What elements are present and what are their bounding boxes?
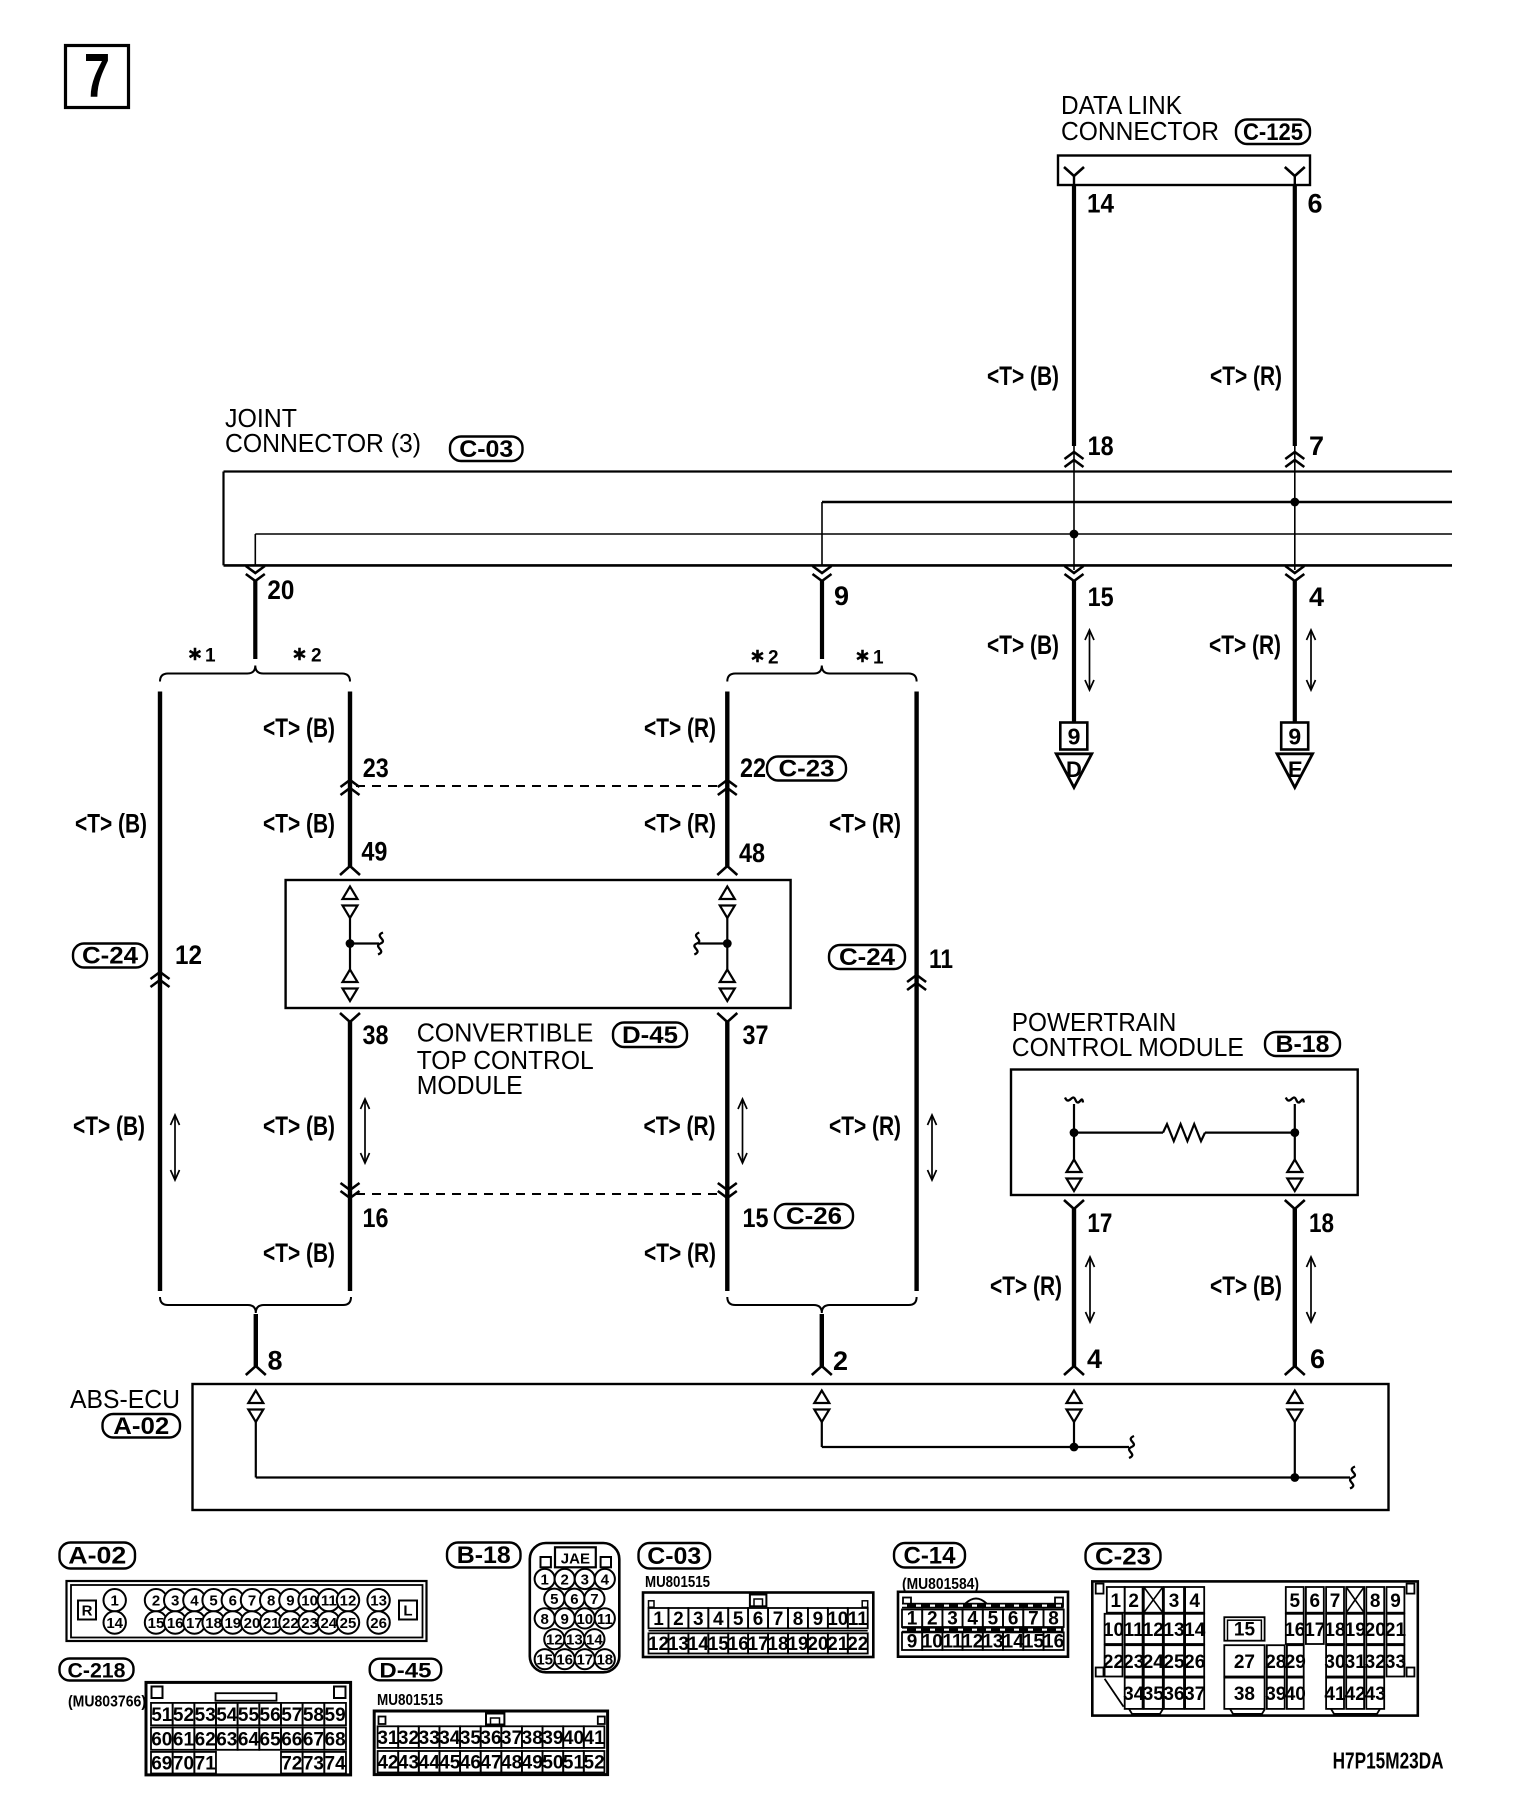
svg-text:19: 19 (787, 1634, 808, 1655)
bus wire R inside C-03 (822, 501, 1452, 504)
svg-text:3: 3 (581, 1572, 589, 1589)
svg-text:6: 6 (1310, 1591, 1321, 1612)
svg-text:9: 9 (907, 1632, 918, 1653)
svg-text:15: 15 (743, 1203, 769, 1233)
svg-text:9: 9 (834, 581, 849, 611)
svg-text:C-24: C-24 (839, 944, 896, 971)
svg-text:4: 4 (1189, 1591, 1200, 1612)
PCM internal node left (1070, 1128, 1079, 1137)
svg-text:26: 26 (1184, 1652, 1205, 1673)
svg-text:42: 42 (377, 1753, 398, 1774)
terminal pin 6 fork (1285, 167, 1305, 185)
svg-text:C-03: C-03 (459, 436, 513, 463)
twisted pair arrow E (1307, 630, 1316, 690)
svg-text:12: 12 (340, 1593, 357, 1610)
svg-text:46: 46 (460, 1753, 481, 1774)
svg-text:CONNECTOR (3): CONNECTOR (3) (225, 430, 421, 458)
svg-text:14: 14 (1184, 1620, 1206, 1641)
svg-text:14: 14 (106, 1615, 123, 1632)
sheet number box 7 (66, 42, 129, 111)
svg-text:40: 40 (1285, 1684, 1306, 1705)
svg-text:D: D (1066, 757, 1082, 782)
connector B-18 pill (1265, 1031, 1340, 1058)
svg-text:3: 3 (693, 1609, 704, 1630)
svg-text:<T> (R): <T> (R) (644, 1238, 716, 1268)
PCM name label (1012, 1009, 1244, 1062)
wire left pair leg 2 (B) upper (348, 692, 352, 867)
connector B-18 pin face JAE (530, 1543, 620, 1672)
svg-text:21: 21 (263, 1615, 280, 1632)
svg-text:15: 15 (1088, 582, 1114, 612)
svg-text:10: 10 (922, 1632, 943, 1653)
svg-text:47: 47 (480, 1753, 501, 1774)
CTCM name label (417, 1020, 594, 1101)
svg-text:7: 7 (590, 1591, 598, 1608)
svg-text:<T> (B): <T> (B) (987, 630, 1059, 660)
svg-text:17: 17 (1304, 1620, 1325, 1641)
svg-text:44: 44 (419, 1753, 441, 1774)
svg-text:JOINT: JOINT (225, 405, 297, 433)
wire to ABS pin 2 (812, 1314, 832, 1375)
svg-text:34: 34 (439, 1728, 461, 1749)
svg-text:2: 2 (833, 1346, 848, 1376)
svg-text:R: R (82, 1603, 93, 1620)
wire right pair leg 1 (R) (914, 692, 918, 1292)
connector C-03 pin face (643, 1593, 873, 1658)
wire right pair leg 2 (R) lower (725, 1022, 729, 1291)
connector chevrons pin 18 (1065, 452, 1084, 467)
connector chevrons pin 7 (1285, 452, 1304, 467)
svg-text:22: 22 (847, 1634, 868, 1655)
svg-text:13: 13 (370, 1593, 387, 1610)
svg-text:CONTROL MODULE: CONTROL MODULE (1012, 1034, 1244, 1062)
ABS internal node pin6 (1290, 1473, 1299, 1482)
svg-text:8: 8 (1370, 1591, 1381, 1612)
svg-text:2: 2 (673, 1609, 684, 1630)
svg-text:12: 12 (546, 1632, 563, 1649)
svg-text:DATA LINK: DATA LINK (1061, 92, 1182, 120)
svg-text:1: 1 (205, 646, 216, 667)
svg-text:48: 48 (739, 838, 765, 868)
ABS internal terminal pair pin6 (1287, 1391, 1302, 1423)
svg-text:2: 2 (311, 646, 322, 667)
svg-text:MODULE: MODULE (417, 1072, 523, 1100)
svg-text:C-24: C-24 (82, 943, 139, 970)
svg-text:41: 41 (584, 1728, 606, 1749)
svg-text:61: 61 (173, 1729, 195, 1750)
svg-text:9: 9 (1288, 724, 1301, 750)
svg-text:23: 23 (363, 753, 389, 783)
terminal pin 14 fork (1064, 167, 1084, 185)
svg-text:2: 2 (927, 1609, 938, 1630)
svg-text:H7P15M23DA: H7P15M23DA (1333, 1748, 1444, 1774)
ABS-ECU name label (70, 1386, 180, 1414)
svg-text:73: 73 (303, 1753, 324, 1774)
svg-text:59: 59 (325, 1705, 346, 1726)
svg-text:8: 8 (267, 1593, 275, 1610)
svg-text:31: 31 (377, 1728, 399, 1749)
twisted pair arrow leg1 right (928, 1115, 937, 1180)
svg-text:13: 13 (982, 1632, 1003, 1653)
svg-text:CONVERTIBLE: CONVERTIBLE (417, 1020, 594, 1048)
svg-text:24: 24 (320, 1615, 337, 1632)
svg-text:22: 22 (740, 753, 766, 783)
PCM internal terminal pair pin17 (1067, 1160, 1082, 1192)
svg-text:9: 9 (561, 1611, 569, 1628)
svg-text:16: 16 (167, 1615, 184, 1632)
svg-text:A-02: A-02 (68, 1543, 126, 1570)
connector D-45 pill (613, 1022, 687, 1049)
PCM internal terminal pair pin18 (1287, 1160, 1302, 1192)
svg-text:45: 45 (439, 1753, 461, 1774)
connector chevrons pin 4 (1285, 566, 1304, 581)
svg-text:6: 6 (1308, 189, 1323, 219)
ground reference D box 9 (1060, 723, 1087, 750)
wire C-03 pin20 down (253, 581, 257, 659)
svg-text:3: 3 (947, 1609, 958, 1630)
CTCM internal terminal pair pin49 (343, 887, 358, 919)
ABS internal wire pin2 down (821, 1422, 823, 1447)
connector D-45 pin face (374, 1711, 607, 1775)
svg-text:8: 8 (268, 1346, 283, 1376)
svg-text:14: 14 (688, 1634, 710, 1655)
terminal fork pin 49 (340, 866, 360, 875)
svg-text:14: 14 (1003, 1632, 1025, 1653)
svg-text:6: 6 (570, 1591, 578, 1608)
svg-text:15: 15 (708, 1634, 730, 1655)
svg-text:37: 37 (1184, 1684, 1205, 1705)
connector D-45 pill bottom (370, 1659, 442, 1683)
svg-text:A-02: A-02 (113, 1413, 169, 1440)
ABS internal bus 2-4 (822, 1436, 1134, 1458)
svg-text:5: 5 (550, 1591, 558, 1608)
svg-text:10: 10 (1103, 1620, 1124, 1641)
svg-text:4: 4 (1087, 1344, 1102, 1374)
svg-text:18: 18 (1309, 1208, 1334, 1238)
CTCM internal wire right (726, 918, 728, 971)
svg-text:3: 3 (1169, 1591, 1180, 1612)
ABS-ECU A-02 box (193, 1384, 1389, 1510)
connector chevrons pin 15 (1065, 566, 1084, 581)
svg-text:27: 27 (1234, 1652, 1255, 1673)
svg-text:4: 4 (190, 1593, 199, 1610)
connector C-24 chevrons pin 12 (151, 972, 170, 987)
PCM terminating resistor (1074, 1124, 1295, 1141)
svg-text:7: 7 (84, 42, 110, 111)
svg-text:43: 43 (1365, 1684, 1386, 1705)
wire to ABS pin 8 (246, 1314, 266, 1375)
variant label *1 right (857, 648, 884, 669)
wire C-03 pin15 to ground D (1072, 581, 1076, 722)
svg-text:7: 7 (248, 1593, 256, 1610)
svg-text:33: 33 (1385, 1652, 1406, 1673)
svg-text:C-218: C-218 (68, 1660, 126, 1683)
svg-text:21: 21 (827, 1634, 849, 1655)
svg-text:<T> (B): <T> (B) (1210, 1271, 1282, 1301)
svg-text:64: 64 (238, 1729, 260, 1750)
svg-text:5: 5 (988, 1609, 999, 1630)
connector A-02 pill label (103, 1413, 181, 1440)
svg-text:4: 4 (601, 1572, 610, 1589)
twisted pair arrow PCM left (1086, 1257, 1095, 1322)
dashed link C-26 (356, 1193, 722, 1195)
ground reference D triangle (1056, 754, 1092, 788)
svg-text:43: 43 (398, 1753, 419, 1774)
ABS internal terminal pair pin4 (1067, 1391, 1082, 1423)
variant label *2 right (752, 648, 779, 669)
svg-text:57: 57 (281, 1705, 302, 1726)
svg-text:53: 53 (195, 1705, 216, 1726)
svg-text:63: 63 (216, 1729, 237, 1750)
svg-text:8: 8 (1048, 1609, 1059, 1630)
svg-text:70: 70 (173, 1753, 194, 1774)
powertrain control module B-18 box (1011, 1070, 1358, 1196)
svg-text:<T> (R): <T> (R) (644, 713, 716, 743)
brace under right pair (727, 1297, 916, 1313)
brace over left pair (160, 666, 350, 682)
svg-text:2: 2 (1128, 1591, 1139, 1612)
svg-text:18: 18 (205, 1615, 222, 1632)
svg-text:52: 52 (584, 1753, 605, 1774)
wire PCM 17 to ABS 4 (R) (1064, 1209, 1084, 1375)
svg-text:10: 10 (301, 1593, 318, 1610)
svg-text:20: 20 (807, 1634, 828, 1655)
ABS internal wire pin8 down (255, 1422, 257, 1478)
terminal fork pin 37 (717, 1013, 737, 1022)
dashed link C-23 (356, 785, 722, 787)
svg-text:20: 20 (244, 1615, 261, 1632)
twisted pair arrow PCM right (1307, 1257, 1316, 1322)
svg-text:69: 69 (151, 1753, 172, 1774)
connector C-23 pin face (1092, 1581, 1418, 1715)
svg-text:15: 15 (148, 1615, 165, 1632)
svg-text:41: 41 (1324, 1684, 1346, 1705)
PCM internal wire left (1073, 1104, 1075, 1161)
svg-text:<T> (R): <T> (R) (829, 1111, 901, 1141)
svg-text:67: 67 (303, 1729, 324, 1750)
connector C-03 pill (450, 436, 523, 463)
svg-text:38: 38 (522, 1728, 543, 1749)
svg-text:<T> (R): <T> (R) (1209, 630, 1281, 660)
svg-text:13: 13 (668, 1634, 689, 1655)
svg-text:11: 11 (848, 1609, 869, 1630)
svg-text:32: 32 (1365, 1652, 1386, 1673)
connector C-23 chevrons pin 23 (341, 780, 360, 795)
CTCM internal wire left (349, 918, 351, 971)
twisted pair arrow D (1085, 630, 1094, 690)
connector C-26 chevrons pin 15 (718, 1183, 737, 1198)
svg-text:36: 36 (1163, 1684, 1184, 1705)
svg-text:8: 8 (541, 1611, 549, 1628)
junction node on bus R (1290, 498, 1299, 507)
brace under left pair (160, 1297, 351, 1313)
svg-text:<T> (R): <T> (R) (644, 809, 716, 839)
svg-text:6: 6 (1310, 1344, 1325, 1374)
svg-text:16: 16 (1043, 1632, 1064, 1653)
svg-text:4: 4 (1309, 582, 1324, 612)
variant label *2 left (294, 646, 322, 667)
wire left pair leg 2 (B) lower (348, 1022, 352, 1291)
svg-text:C-23: C-23 (1095, 1543, 1151, 1570)
svg-text:D-45: D-45 (622, 1022, 678, 1049)
svg-text:1: 1 (653, 1609, 664, 1630)
svg-text:B-18: B-18 (457, 1542, 511, 1569)
svg-text:13: 13 (566, 1632, 583, 1649)
connector A-02 pin face (67, 1581, 427, 1641)
connector C-14 pill (894, 1542, 965, 1569)
connector C-23 pill bottom (1086, 1543, 1161, 1570)
svg-text:CONNECTOR: CONNECTOR (1061, 118, 1219, 146)
twisted pair arrow leg2 right (738, 1099, 747, 1163)
svg-text:26: 26 (370, 1615, 387, 1632)
svg-text:<T> (B): <T> (B) (263, 1238, 335, 1268)
svg-text:12: 12 (175, 940, 202, 970)
svg-text:17: 17 (186, 1615, 203, 1632)
svg-text:49: 49 (522, 1753, 543, 1774)
svg-text:11: 11 (1124, 1620, 1145, 1641)
twisted pair arrow leg1 left (171, 1115, 180, 1180)
svg-text:1: 1 (907, 1609, 918, 1630)
wire right pair leg 2 (R) upper (725, 692, 729, 867)
svg-text:35: 35 (1143, 1684, 1165, 1705)
CTCM internal terminal pair pin38 (343, 970, 358, 1002)
svg-text:9: 9 (813, 1609, 824, 1630)
svg-text:39: 39 (1265, 1684, 1286, 1705)
svg-text:(MU801584): (MU801584) (902, 1576, 979, 1593)
svg-text:6: 6 (1008, 1609, 1019, 1630)
svg-text:74: 74 (325, 1753, 347, 1774)
svg-text:30: 30 (1324, 1652, 1345, 1673)
svg-text:11: 11 (942, 1632, 963, 1653)
connector C-23 pill (767, 756, 846, 783)
connector C-03 pill bottom (639, 1543, 711, 1570)
svg-text:34: 34 (1123, 1684, 1145, 1705)
data link connector label (1061, 92, 1219, 146)
PCM internal break right (1286, 1097, 1304, 1102)
svg-text:B-18: B-18 (1276, 1031, 1330, 1058)
svg-text:15: 15 (1234, 1620, 1256, 1641)
svg-text:18: 18 (596, 1652, 613, 1669)
svg-text:60: 60 (151, 1729, 172, 1750)
svg-text:8: 8 (793, 1609, 804, 1630)
svg-text:32: 32 (398, 1728, 419, 1749)
connector C-26 pill (775, 1203, 853, 1230)
svg-text:<T> (B): <T> (B) (73, 1111, 145, 1141)
svg-text:52: 52 (173, 1705, 194, 1726)
svg-text:40: 40 (563, 1728, 584, 1749)
svg-text:C-125: C-125 (1243, 119, 1303, 146)
svg-text:58: 58 (303, 1705, 324, 1726)
svg-text:7: 7 (1028, 1609, 1039, 1630)
junction node on bus B (1070, 530, 1079, 539)
svg-text:5: 5 (733, 1609, 744, 1630)
connector C-218 pin face (146, 1682, 351, 1775)
svg-text:55: 55 (238, 1705, 260, 1726)
svg-text:9: 9 (1390, 1591, 1401, 1612)
svg-text:11: 11 (929, 944, 953, 974)
svg-text:7: 7 (1309, 431, 1324, 461)
CTCM internal node right (723, 939, 732, 948)
svg-text:L: L (403, 1603, 412, 1620)
svg-text:24: 24 (1143, 1652, 1165, 1673)
svg-text:<T> (B): <T> (B) (75, 809, 147, 839)
svg-text:71: 71 (195, 1753, 217, 1774)
wire left pair leg 1 (B) (158, 692, 162, 1292)
svg-text:18: 18 (1324, 1620, 1345, 1641)
svg-text:68: 68 (325, 1729, 346, 1750)
connector A-02 pill bottom (60, 1543, 136, 1570)
svg-text:MU801515: MU801515 (377, 1692, 443, 1709)
svg-text:2: 2 (768, 648, 779, 669)
svg-text:13: 13 (1163, 1620, 1184, 1641)
connector B-18 pill bottom (447, 1542, 521, 1569)
svg-text:31: 31 (1345, 1652, 1367, 1673)
svg-text:16: 16 (1284, 1620, 1305, 1641)
svg-text:23: 23 (301, 1615, 318, 1632)
joint connector label (225, 405, 421, 458)
svg-text:15: 15 (1023, 1632, 1045, 1653)
svg-text:<T> (R): <T> (R) (1210, 361, 1282, 391)
svg-text:25: 25 (1163, 1652, 1185, 1673)
svg-text:6: 6 (753, 1609, 764, 1630)
data link connector C-125 body (1058, 156, 1310, 186)
svg-text:17: 17 (1087, 1208, 1112, 1238)
joint connector C-03 outline (224, 472, 1453, 566)
svg-text:C-14: C-14 (904, 1542, 957, 1569)
wire PCM 18 to ABS 6 (B) (1285, 1209, 1305, 1375)
svg-text:29: 29 (1285, 1652, 1306, 1673)
svg-text:25: 25 (340, 1615, 357, 1632)
svg-text:23: 23 (1123, 1652, 1144, 1673)
connector chevrons pin 9 (813, 502, 832, 581)
svg-text:42: 42 (1345, 1684, 1366, 1705)
wire DLC pin14 to C-03 pin18, K-line (B) (1072, 185, 1076, 446)
svg-text:11: 11 (597, 1611, 613, 1628)
connector C-24 chevrons pin 11 (907, 975, 926, 990)
svg-text:ABS-ECU: ABS-ECU (70, 1386, 180, 1414)
svg-text:10: 10 (576, 1611, 593, 1628)
svg-text:28: 28 (1265, 1652, 1286, 1673)
svg-text:11: 11 (321, 1593, 337, 1610)
connector C-26 chevrons pin 16 (341, 1183, 360, 1198)
wire 18 through C-03 (thin) (1073, 446, 1075, 570)
svg-text:C-03: C-03 (647, 1543, 701, 1570)
svg-text:16: 16 (556, 1652, 573, 1669)
svg-text:<T> (B): <T> (B) (987, 361, 1059, 391)
svg-text:4: 4 (967, 1609, 978, 1630)
connector C-14 pin face (898, 1592, 1068, 1657)
svg-text:38: 38 (363, 1020, 389, 1050)
svg-text:19: 19 (224, 1615, 241, 1632)
svg-text:TOP CONTROL: TOP CONTROL (417, 1047, 594, 1075)
svg-text:3: 3 (171, 1593, 179, 1610)
svg-text:4: 4 (713, 1609, 724, 1630)
CTCM internal stub right (694, 933, 725, 955)
svg-text:<T> (B): <T> (B) (263, 809, 335, 839)
svg-text:39: 39 (542, 1728, 563, 1749)
svg-text:17: 17 (576, 1652, 593, 1669)
svg-text:54: 54 (216, 1705, 238, 1726)
svg-text:22: 22 (282, 1615, 299, 1632)
terminal fork pin 18 (1285, 1200, 1305, 1209)
svg-text:1: 1 (541, 1572, 549, 1589)
svg-text:7: 7 (1330, 1591, 1341, 1612)
svg-text:D-45: D-45 (379, 1660, 431, 1683)
svg-text:14: 14 (1087, 189, 1114, 219)
connector chevrons pin 20 (246, 534, 265, 581)
bus wire B inside C-03 (255, 533, 1452, 535)
svg-text:37: 37 (501, 1728, 522, 1749)
